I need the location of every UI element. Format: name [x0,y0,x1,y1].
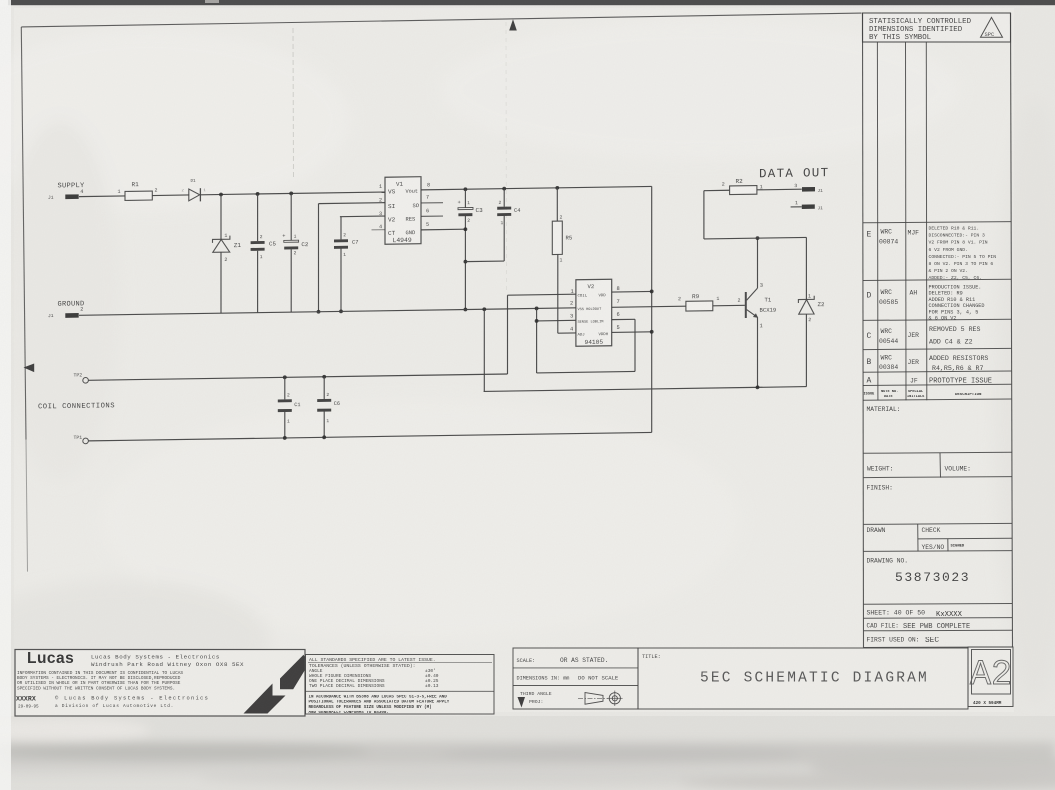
title box: 5EC SCHEMATIC DIAGRAM [638,648,968,709]
capacitor C7 [334,216,385,311]
capacitor C2 (polarized) [282,193,309,312]
drawing border frame [21,13,861,572]
resistor R5 [552,188,572,334]
revision row A [867,377,993,386]
wire V2 pin4 ADJ [558,332,576,334]
bottom scan shadow band [0,716,1055,790]
zener diode Z2 [798,237,825,387]
U1 pin4 CT stub [372,229,386,231]
diode D1 [182,180,207,202]
wire V2 pin7 to R9 [612,306,686,307]
wire supply J1 to R1 [79,195,125,198]
centering arrow left [24,363,35,372]
junction TP2 wire at C1 [283,375,287,379]
wire lower rail (emitter/Z2 ground return) [484,387,807,392]
wire V2 pin5 VDDH to x651 vertical [612,331,652,334]
junction C3 wire at U1 GND pin5 [464,227,468,231]
left scan white strip [0,0,11,790]
standards box [306,655,495,716]
A2 sheet size box [968,647,1013,707]
resistor R1 [118,181,158,201]
revision table header [864,390,983,399]
junction ground at C7 [339,309,343,313]
junction Vout rail at C4 [502,187,506,191]
junction supply rail at C5 [256,192,260,196]
revision row C [867,326,981,346]
revision row E [867,226,997,282]
transistor T1 BCX19 [746,238,776,388]
title block: SPC header box [863,13,1011,42]
centering arrow top [509,19,517,30]
wire x651 vertical Vout to TP1 [651,186,653,432]
zener diode Z1 [213,194,242,313]
junction ground rail at pin3 loop [535,307,539,311]
resistor R9 [678,293,719,311]
U1 pin6 RES stub [421,215,443,217]
junction TP1 wire at C1 [283,436,287,440]
IC V2 94105 [576,279,612,346]
junction C3 wire at C4 link [464,260,468,264]
node TP2 test point [74,372,89,383]
junction x651 at pin8 [650,289,654,293]
capacitor C1 [278,377,301,438]
sheet / cad file / first used rows [864,610,1013,648]
junction Vout rail at C3 [464,187,468,191]
node J1-4 SUPPLY input connector [48,182,85,201]
wire R1 to D1 [152,194,189,197]
junction ground rail at x484 drop [482,307,486,311]
junction ground rail at C3 [464,308,468,312]
node TP1 test point [74,435,89,444]
resistor R2 [704,178,763,195]
wire collector node row R2 to Z2 [704,189,807,239]
wire V2 pin8 VDD to x651 vertical [612,290,652,293]
wire TP2 to x484 drop and pin1 drop [88,374,507,380]
capacitor C3 (polarized) [458,189,484,310]
U1 pin numbers [379,182,430,230]
junction TP2 wire at C6 [322,375,326,379]
wire ground drop x484 to lower rail [483,309,485,391]
Lucas flash logo [244,655,305,714]
wire U1 pin5 GND to C3 [421,228,465,231]
op-amp/regulator U1 L4949 (V1) [385,177,421,245]
title block: revision table [863,13,1013,648]
node J1-3 DATA OUT connector [794,183,823,195]
wire R9 to T1 base [713,298,745,306]
junction ground at SI wire [317,310,321,314]
node COIL CONNECTIONS label [38,402,115,411]
top scan edge bar [8,0,1055,5]
junction pin3 row at loop [535,319,539,323]
wire V2 pin3 loop to pin6 and pin2 [537,307,635,373]
wire TP1 to x651 riser [88,432,651,440]
revision row D [867,285,985,322]
V2 pin numbers [570,286,620,333]
junction x651 at pin5 [650,330,654,334]
node DATA OUT label [759,166,829,181]
U1 pin7 SO stub [421,202,443,204]
wire V2 pin1 COIL to TP2 drop [508,294,576,374]
scale / projection box [513,648,638,709]
junction TP1 wire at C6 [322,435,326,439]
wire R2 to J1-3 [757,188,802,191]
junction supply rail at C2 [289,192,293,196]
Lucas company box [15,650,305,717]
capacitor C5 [251,194,277,313]
junction lower rail at T1 emitter [756,385,760,389]
node J1-1 connector stub [791,200,824,212]
wire U1 pin8 Vout rail to x651 drop [421,186,652,189]
revision row B [867,355,989,373]
junction Vout rail at R5 [555,186,559,190]
fold crease lines [293,22,507,296]
capacitor C6 [317,377,340,438]
capacitor C4 [465,188,520,261]
ground rail: J1-2 GROUND to V2 pin2 VSS [48,293,576,319]
material / weight / finish boxes [864,406,1013,604]
junction supply rail at Z1 [219,193,223,197]
wire D1 to U1 pin1 VS (supply rail) [201,192,385,195]
wire U1 pin2 SI down to ground rail [319,203,386,312]
junction collector node [756,236,760,240]
